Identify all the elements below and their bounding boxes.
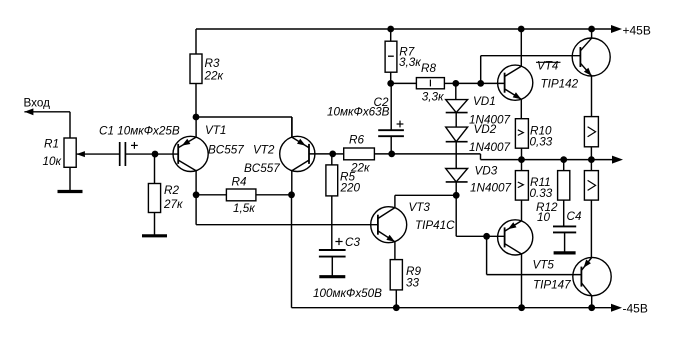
resistor R9 — [390, 260, 402, 290]
resistor R3 — [190, 54, 202, 84]
svg-text:VD3: VD3 — [475, 165, 498, 178]
R1 wiper arrow — [76, 151, 119, 157]
node R7/R8/C2 — [387, 80, 394, 87]
wire node to R5 — [331, 154, 333, 165]
wire -45V rail — [292, 307, 613, 309]
label VT1 — [205, 124, 244, 157]
svg-text:TIP41C: TIP41C — [415, 219, 455, 232]
wire C1 to VT1 base — [125, 153, 178, 155]
label VD1 — [469, 95, 510, 127]
transistor VT4a — [498, 65, 533, 100]
node VD3 / VT3 collector — [453, 192, 460, 199]
label -45V — [623, 302, 648, 316]
wire node to C2 — [390, 83, 392, 130]
capacitor C4 — [553, 226, 576, 232]
wire R2 to ground — [154, 213, 156, 236]
wire VD1-VD2 — [455, 113, 457, 128]
C2 plus — [397, 121, 404, 128]
svg-text:TIP147: TIP147 — [533, 279, 571, 292]
wire R6 to C2 node — [374, 153, 391, 155]
wire VT5a collector — [521, 254, 523, 308]
diode VD3 — [446, 169, 468, 182]
ground under C4 — [554, 251, 576, 254]
wire R1 bottom to ground — [69, 167, 71, 191]
label R6 — [349, 134, 370, 175]
input arrow — [24, 108, 33, 115]
wire C2 to rail — [390, 136, 392, 154]
resistor R7 — [385, 41, 397, 72]
potentiometer R1 — [64, 138, 76, 167]
diode VD1 — [446, 100, 468, 113]
label C1 — [99, 125, 180, 138]
svg-text:R8: R8 — [421, 62, 436, 75]
svg-text:BC557: BC557 — [244, 162, 280, 175]
wire VD3 bottom — [455, 182, 457, 195]
wire R7 top — [390, 29, 392, 41]
svg-text:TIP142: TIP142 — [541, 78, 579, 91]
wire to R4 — [196, 194, 226, 196]
node VD1 top — [452, 80, 459, 87]
svg-text:R1: R1 — [44, 138, 59, 151]
wire VD2-VD3 — [455, 142, 457, 169]
svg-text:1N4007: 1N4007 — [470, 182, 511, 195]
node VT5b collector — [588, 304, 595, 311]
wire +45V top rail — [196, 29, 612, 54]
wire to VT5a base — [487, 235, 505, 237]
wire input to R1 — [24, 112, 70, 138]
wire rail to R11 — [521, 160, 523, 171]
wire VT5b base dropper — [487, 236, 582, 274]
wire C3 to ground — [331, 257, 333, 277]
wire VT4b emitter — [591, 76, 593, 117]
wire VT2 emitter — [291, 117, 293, 137]
wire R7 bottom — [390, 72, 392, 83]
wire VT3 collector up — [394, 195, 396, 207]
wire VT5b collector — [591, 296, 593, 308]
svg-text:10к: 10к — [43, 155, 62, 168]
power -45V arrow — [611, 304, 622, 312]
svg-text:1N4007: 1N4007 — [469, 141, 510, 154]
wire R3 bottom to emitters node — [195, 84, 197, 118]
label R11 — [530, 176, 553, 200]
node VT1 collector — [193, 191, 200, 198]
label R2 — [163, 184, 183, 211]
transistor VT1 — [173, 136, 208, 171]
svg-text:R3: R3 — [205, 57, 220, 70]
diode VD2 — [446, 127, 468, 142]
node VT2 collector — [288, 191, 295, 198]
svg-text:VT3: VT3 — [409, 201, 431, 214]
capacitor C3 — [319, 250, 346, 257]
resistor R8 — [416, 78, 444, 89]
wire to VT4 base node — [456, 82, 481, 84]
wire VT4a collector — [520, 29, 522, 66]
label VD2 — [469, 123, 510, 154]
label +45V — [623, 24, 651, 38]
node R7 top — [387, 26, 394, 33]
output arrow — [612, 156, 623, 164]
svg-text:27к: 27к — [163, 198, 183, 211]
wire rail to R12 — [563, 160, 565, 171]
wire VT3 emitter — [394, 242, 396, 260]
wire VT1 emitter — [195, 117, 197, 137]
svg-text:C1 10мкФх25В: C1 10мкФх25В — [99, 125, 180, 138]
label VD3 — [470, 165, 511, 195]
node rail R12 — [560, 156, 567, 163]
wire emitter bus — [196, 117, 292, 137]
resistor R5 — [326, 165, 338, 196]
label R12 — [536, 201, 558, 224]
label R5 — [340, 171, 361, 195]
wire VT4b base riser — [481, 56, 581, 84]
wire node to R6 — [333, 153, 344, 155]
svg-text:+45В: +45В — [623, 24, 651, 38]
transistor VT2 — [280, 136, 315, 171]
wire C4 to ground — [564, 232, 566, 253]
label R10 — [530, 125, 553, 149]
svg-text:22к: 22к — [204, 70, 224, 83]
wire chain to VT5 base node — [456, 195, 486, 236]
resistor R-bottom-right — [584, 171, 598, 201]
svg-text:33: 33 — [406, 277, 420, 290]
resistor R2 — [148, 184, 160, 213]
C1 plus — [131, 142, 138, 149]
wire VT3 base — [196, 195, 378, 225]
wire VT1 collector — [195, 171, 197, 195]
node VT1/VT2 emitter junction — [193, 114, 200, 121]
label input — [24, 97, 51, 110]
svg-text:R4: R4 — [232, 175, 247, 188]
wire node to R2 — [154, 154, 156, 183]
wire R12 to C4 — [563, 200, 565, 226]
label VT3 — [409, 201, 456, 232]
svg-text:VD1: VD1 — [473, 95, 496, 108]
svg-text:VT1: VT1 — [205, 124, 226, 137]
svg-text:R6: R6 — [349, 134, 364, 147]
wire VT3 collector link — [395, 194, 456, 196]
node VT4a collector — [518, 26, 525, 33]
label R1 — [43, 138, 62, 169]
transistor VT4b — [572, 38, 610, 76]
svg-text:VT2: VT2 — [253, 144, 275, 157]
svg-text:VD2: VD2 — [474, 123, 497, 136]
resistor R4 — [226, 189, 256, 201]
wire to VT4a base — [481, 82, 505, 84]
node VT4b collector — [588, 26, 595, 33]
svg-text:1,5к: 1,5к — [233, 202, 255, 215]
label VT4 — [536, 60, 579, 91]
wire rail to lower resistor — [590, 160, 592, 171]
wire VT4a emitter — [520, 99, 522, 119]
wire VT4b collector — [591, 29, 593, 38]
label R9 — [406, 265, 421, 290]
capacitor C2 — [378, 130, 404, 136]
wire R5 to C3 — [331, 196, 333, 250]
capacitor C1 — [120, 142, 126, 166]
node VT5a collector — [518, 304, 525, 311]
svg-text:VT4: VT4 — [537, 60, 559, 73]
svg-text:R2: R2 — [164, 184, 179, 197]
node VT5 bases — [483, 233, 490, 240]
svg-text:10: 10 — [537, 211, 551, 224]
node VT2 base / R5 / R6 — [329, 151, 336, 158]
wire VD chain top — [455, 83, 457, 99]
node C2 / R6 / output rail — [388, 151, 395, 158]
label C4 — [567, 210, 582, 223]
label C2 — [327, 96, 390, 119]
label R8 — [421, 62, 444, 104]
svg-text:Вход: Вход — [24, 97, 51, 110]
label VT2 — [244, 144, 280, 176]
resistor R11 — [515, 171, 528, 201]
wire R8 right — [444, 82, 455, 84]
svg-text:0,33: 0,33 — [530, 136, 553, 149]
power +45V arrow — [611, 25, 622, 33]
resistor R6 — [344, 148, 375, 160]
transistor VT5a — [498, 220, 533, 255]
ground under R2 — [142, 234, 167, 237]
wire R11 to VT5a emitter — [521, 200, 523, 221]
resistor R12 — [558, 171, 570, 201]
svg-text:C4: C4 — [567, 210, 582, 223]
node output R10/R11 — [518, 156, 525, 163]
ground under R1 — [58, 190, 83, 193]
wire VT2 collector to -45V rail — [291, 171, 293, 308]
wire R9 to rail — [395, 290, 397, 308]
node output right — [588, 156, 595, 163]
label VT5 — [533, 259, 572, 292]
ground under C3 — [319, 275, 345, 278]
transistor VT5b — [573, 257, 611, 295]
svg-text:C3: C3 — [345, 236, 360, 249]
wire to rail — [590, 147, 592, 160]
resistor R10 — [515, 119, 528, 149]
label C3 — [335, 236, 360, 249]
svg-text:-45В: -45В — [623, 302, 648, 316]
wire VT2 base — [309, 153, 333, 155]
node VT4 bases — [477, 80, 484, 87]
svg-text:BC557: BC557 — [208, 144, 244, 157]
label R4 — [232, 175, 256, 215]
node base VT1 / R2 — [152, 151, 159, 158]
svg-text:0.33: 0.33 — [530, 187, 553, 200]
svg-text:VT5: VT5 — [533, 259, 555, 272]
label R7 — [399, 46, 421, 69]
wire R10 to rail — [521, 148, 523, 159]
label C3 value — [313, 287, 382, 300]
svg-text:3,3к: 3,3к — [422, 90, 444, 103]
wire to R8 — [391, 82, 417, 84]
svg-text:100мкФх50В: 100мкФх50В — [313, 287, 382, 300]
svg-text:3,3к: 3,3к — [399, 56, 421, 69]
node R9 bottom — [393, 304, 400, 311]
label R3 value — [204, 57, 224, 83]
transistor VT3 — [371, 207, 407, 243]
wire output rail — [392, 154, 612, 160]
svg-text:10мкФх63В: 10мкФх63В — [327, 106, 390, 119]
svg-text:220: 220 — [340, 182, 361, 195]
wire to VT5b emitter — [590, 200, 592, 257]
wire R4 to VT2 collector node — [256, 194, 292, 196]
resistor R-top-right — [584, 117, 598, 147]
